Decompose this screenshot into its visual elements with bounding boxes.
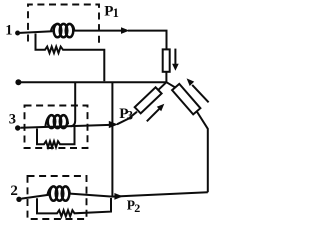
svg-text:2: 2 <box>10 183 18 199</box>
svg-text:3: 3 <box>127 108 133 122</box>
svg-text:3: 3 <box>9 112 16 128</box>
svg-text:2: 2 <box>134 201 140 215</box>
svg-text:1: 1 <box>113 6 119 20</box>
svg-text:1: 1 <box>5 23 12 39</box>
